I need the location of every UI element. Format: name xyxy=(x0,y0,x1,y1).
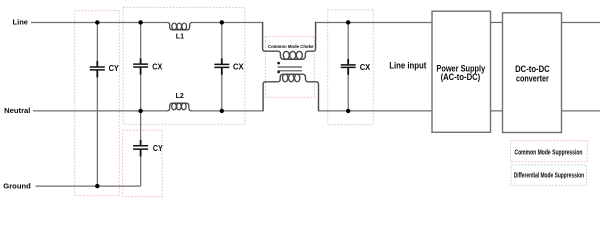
inductor L1 xyxy=(167,22,192,29)
node Neutral-CX3 xyxy=(346,109,350,113)
wire CY1 branch vertical xyxy=(96,22,98,186)
svg-text:CX: CX xyxy=(360,63,371,72)
svg-text:Neutral: Neutral xyxy=(4,106,30,115)
wire Neutral rail right of choke xyxy=(319,110,433,112)
svg-text:CY: CY xyxy=(153,144,163,153)
wire Neutral between supply boxes xyxy=(491,110,503,112)
choke polarity dot bottom xyxy=(277,71,280,74)
svg-text:L1: L1 xyxy=(176,31,184,40)
svg-text:Common Mode Choke: Common Mode Choke xyxy=(268,44,314,50)
svg-text:Line: Line xyxy=(13,18,29,27)
wire Line rail right of choke xyxy=(316,21,432,23)
svg-text:Line input: Line input xyxy=(389,61,426,71)
svg-text:converter: converter xyxy=(516,73,549,83)
node Line-CY1 xyxy=(95,20,99,24)
svg-text:Ground: Ground xyxy=(3,181,31,190)
svg-text:CY: CY xyxy=(109,64,120,73)
capacitor CX1 xyxy=(133,58,148,74)
node Line-CX2 xyxy=(220,20,224,24)
choke core lines xyxy=(278,67,303,71)
common-mode dashed box (CX/L1/L2 region, green) xyxy=(123,7,245,124)
common-mode choke U1 top winding xyxy=(263,22,316,60)
node Neutral-CX2 xyxy=(220,109,224,113)
differential-mode dashed box (left CY region, pink) xyxy=(75,11,120,196)
common-mode choke dashed box (pink) xyxy=(265,37,314,98)
capacitor CY2 xyxy=(133,140,148,157)
common-mode choke U1 bottom winding xyxy=(263,74,318,111)
node Ground-CY1 xyxy=(95,184,99,188)
wire Line output xyxy=(562,21,600,23)
svg-text:Common Mode Suppression: Common Mode Suppression xyxy=(515,148,583,157)
node Line-CX1 xyxy=(138,20,142,24)
legend differential mode suppression (green) xyxy=(511,165,587,185)
wire Line between supply boxes xyxy=(491,21,503,23)
wire Neutral rail mid xyxy=(192,110,264,112)
svg-text:CX: CX xyxy=(152,62,162,71)
svg-text:(AC-to-DC): (AC-to-DC) xyxy=(441,72,481,82)
wire Line rail mid xyxy=(192,21,263,23)
svg-text:Differential Mode Suppression: Differential Mode Suppression xyxy=(514,171,584,180)
capacitor CX2 xyxy=(214,59,229,75)
svg-text:CX: CX xyxy=(233,62,244,71)
differential-mode dashed box (lower CY region, pink) xyxy=(123,130,163,197)
wire Line rail left xyxy=(31,21,167,23)
legend common mode suppression (pink) xyxy=(511,141,588,162)
power supply box U2 xyxy=(432,11,491,132)
inductor L2 xyxy=(167,103,192,111)
capacitor CX3 xyxy=(341,59,356,75)
right CX dashed box (green) xyxy=(328,10,374,125)
wire CX2 branch vertical xyxy=(221,22,223,110)
wire Ground rail xyxy=(36,185,141,187)
dc-dc converter box U3 xyxy=(503,13,562,133)
wire CX3 branch vertical xyxy=(347,22,349,110)
wire Neutral output xyxy=(562,110,600,112)
node Line-CX3 xyxy=(346,20,350,24)
choke polarity dot top xyxy=(277,62,280,65)
wire Neutral rail left xyxy=(33,110,167,112)
wire CX1/CY2 branch vertical xyxy=(140,22,142,186)
svg-text:L2: L2 xyxy=(176,91,184,100)
node Neutral-CX1 xyxy=(138,109,142,113)
capacitor CY1 xyxy=(90,61,105,77)
